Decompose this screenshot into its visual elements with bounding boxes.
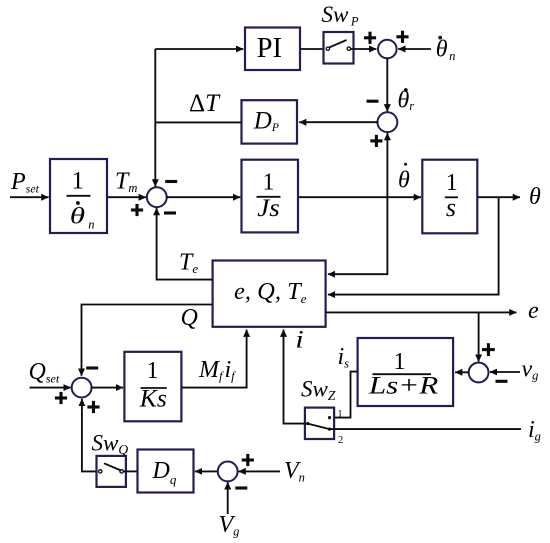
wire Q_set input (30, 387, 71, 389)
block 1/Ks (124, 352, 181, 422)
wire J3 to 1/Js (166, 196, 240, 198)
svg-text:1: 1 (338, 409, 343, 420)
sign plus right-top of J1 (396, 31, 408, 43)
wire Sw_Q up into J4 (82, 399, 99, 472)
sign minus bottom-right of J3 (164, 211, 176, 214)
wire J5 to 1/(Ls+R) (455, 371, 469, 373)
svg-text:1: 1 (71, 167, 84, 194)
wire D_P output DeltaT to left rail (155, 121, 241, 123)
summing junction J1 (speed ref) (378, 40, 397, 59)
wire D_q to Sw_Q (123, 470, 137, 472)
wire P_set input (10, 196, 49, 198)
wire Sw_P to J1 (351, 48, 377, 50)
svg-text:1: 1 (263, 170, 275, 196)
wire theta_dot_n input (398, 48, 431, 50)
wire T_m (107, 196, 146, 198)
switch Sw_P (324, 32, 354, 64)
svg-text:θ: θ (398, 168, 410, 194)
summing junction J2 (damping) (378, 112, 398, 132)
wire V_g input up into J6 (227, 482, 229, 514)
svg-text:1: 1 (147, 358, 159, 384)
wire J6 to D_q (195, 470, 218, 472)
sign plus left-top of J1 (364, 32, 376, 44)
svg-text:2: 2 (338, 435, 343, 446)
block 1/theta_dot_n (50, 159, 107, 233)
summing junction J6 (voltage droop) (218, 462, 238, 482)
svg-text:ΔT: ΔT (189, 90, 221, 117)
svg-text:e: e (528, 298, 539, 324)
wire i from Sw_Z common into block bottom (284, 330, 308, 424)
wire i_s from 1/(Ls+R) to Sw_Z pin1 (330, 372, 358, 418)
wire J4 to 1/Ks (91, 387, 123, 389)
block D_P (242, 100, 298, 143)
svg-text:Js: Js (257, 195, 280, 222)
svg-text:Ls+R: Ls+R (368, 373, 439, 400)
sign plus bottom-right of J4 (87, 401, 99, 413)
wire Q feedback down to J4 (82, 305, 213, 376)
sign plus below J2 (370, 135, 382, 147)
wire theta_dot feedback drop into block right (328, 197, 388, 274)
block e,Q,Te (213, 261, 326, 327)
block PI (245, 28, 300, 71)
wire 1/Js to 1/s (298, 196, 421, 198)
summing junction J5 (voltage) (469, 363, 489, 383)
block D_q (138, 450, 194, 493)
wire PI to Sw_P (300, 48, 326, 50)
block 1/s (422, 160, 477, 234)
wire theta_dot up into J2 (386, 133, 388, 197)
wire T_e feedback up into J3 (157, 208, 213, 280)
block 1/(Ls+R) (358, 338, 454, 406)
wire 1/s to theta output (477, 196, 520, 198)
svg-text:θ: θ (529, 184, 541, 210)
switch Sw_Q (97, 456, 126, 487)
sign plus above J5 (482, 343, 495, 356)
switch Sw_Z (305, 408, 334, 439)
svg-text:θ: θ (70, 204, 85, 229)
wire M_f i_f from 1/Ks up into block bottom (181, 330, 246, 388)
sign minus top of J3 (165, 180, 177, 183)
sign minus above J2 (367, 100, 379, 103)
sign minus below-right of J6 (235, 486, 247, 489)
sign plus left-bottom of J3 (131, 204, 143, 216)
block 1/Js (242, 160, 299, 233)
svg-text:1: 1 (394, 349, 406, 375)
wire v_g input (490, 371, 520, 373)
svg-text:Ks: Ks (139, 385, 167, 412)
sign minus above J4 (86, 366, 98, 369)
wire J2 to D_P (299, 121, 378, 123)
sign minus below-right of J5 (496, 380, 508, 383)
svg-text:Q: Q (181, 305, 198, 331)
svg-text:s: s (446, 193, 456, 222)
svg-text:PI: PI (257, 33, 282, 64)
summing junction J3 (swing) (147, 187, 167, 207)
svg-text:i: i (295, 326, 304, 353)
svg-text:Mfif: Mfif (198, 357, 236, 384)
sign plus above-right of J6 (242, 454, 254, 466)
wire i_g from Sw_Z pin2 (330, 428, 522, 430)
wire e output (326, 311, 517, 313)
wire J1 down to J2 (386, 59, 388, 112)
wire e drop into J5 (478, 312, 480, 361)
svg-text:e, Q, Te: e, Q, Te (234, 278, 307, 306)
wire theta feedback drop into block right (328, 197, 499, 294)
wire vertical DeltaT feed down into J3 (154, 49, 156, 187)
wire V_n input (239, 470, 281, 472)
summing junction J4 (reactive) (72, 378, 92, 398)
wire top horizontal into PI (155, 48, 243, 50)
sign plus left-bottom of J4 (55, 392, 67, 404)
svg-text:n: n (88, 217, 94, 231)
